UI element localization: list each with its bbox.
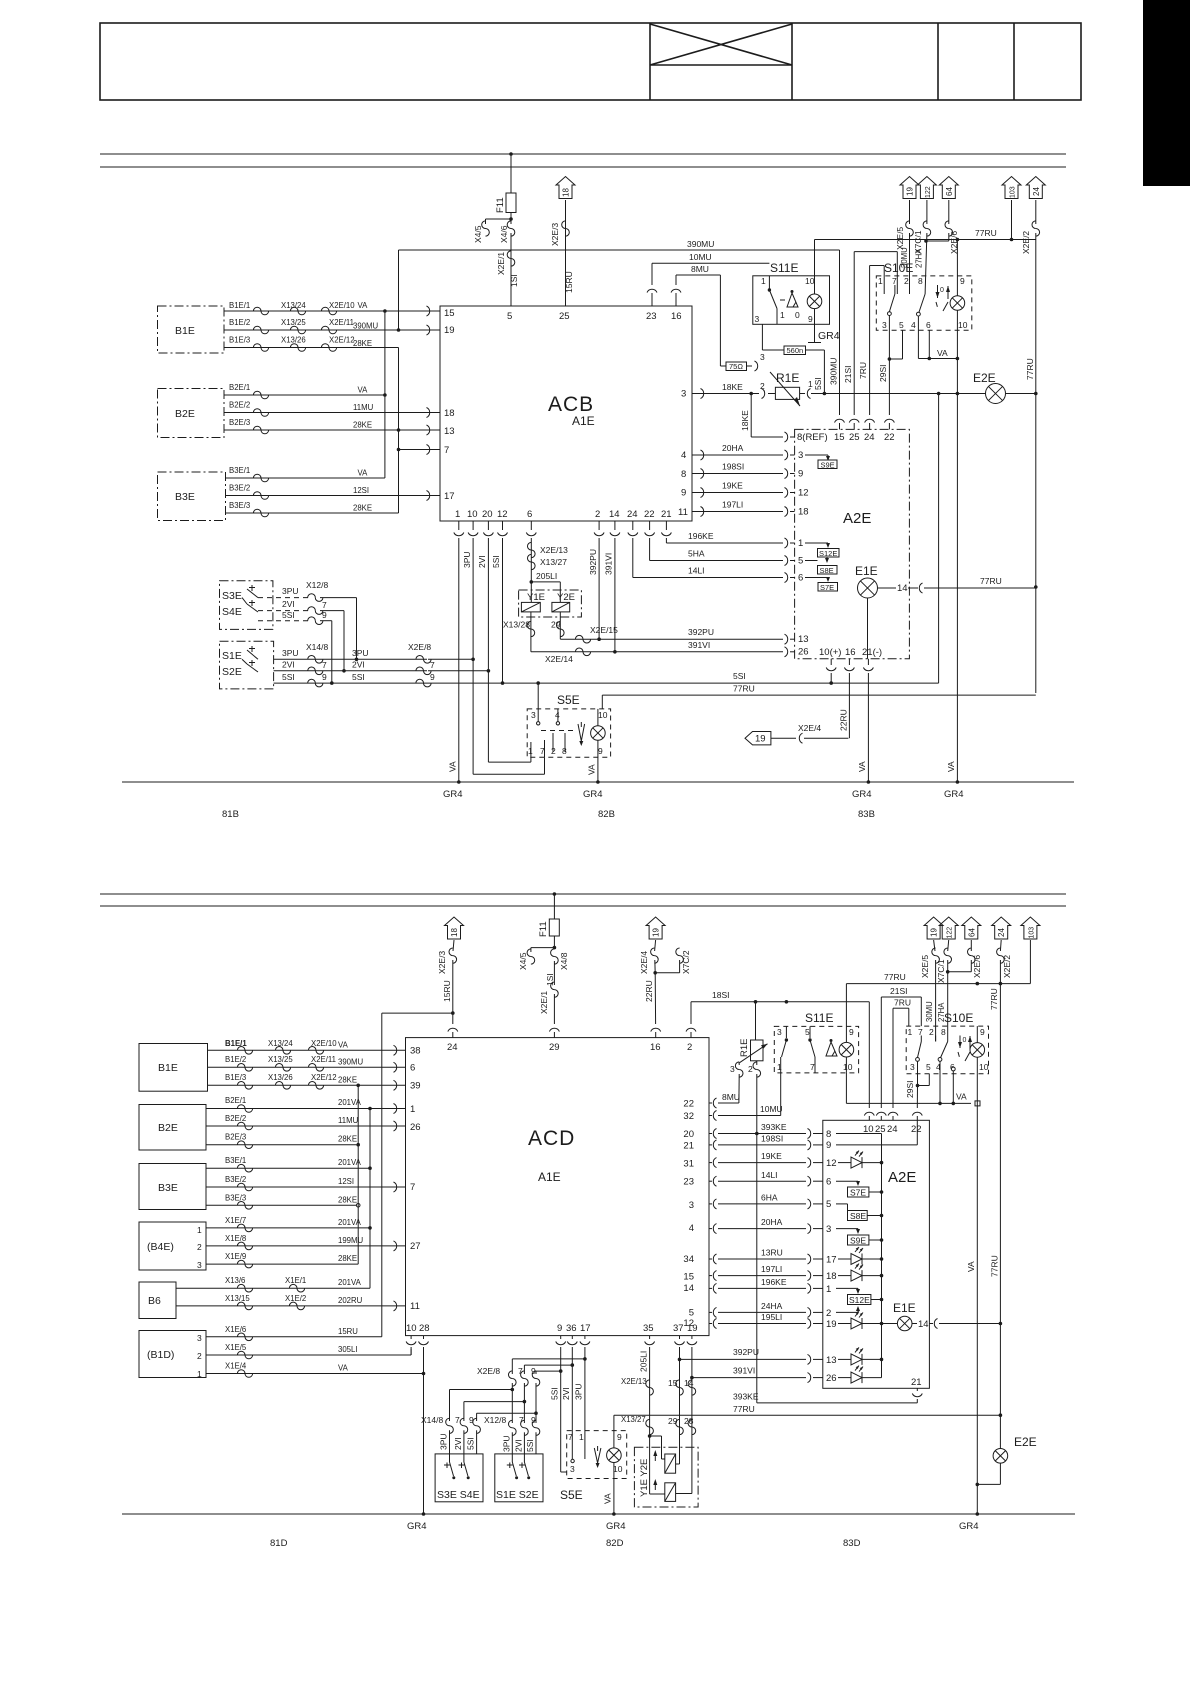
svg-text:3: 3 xyxy=(760,352,765,362)
201VA bus xyxy=(369,1109,371,1289)
svg-text:B6: B6 xyxy=(148,1295,161,1307)
svg-text:12: 12 xyxy=(798,488,809,499)
svg-text:B1E/2: B1E/2 xyxy=(229,318,250,327)
A2E pin 9 row 198SI xyxy=(692,462,803,480)
svg-text:391VI: 391VI xyxy=(688,640,710,650)
svg-text:391VI: 391VI xyxy=(604,553,614,575)
svg-text:18SI: 18SI xyxy=(712,990,730,1000)
rheostat R1E xyxy=(760,352,985,406)
svg-text:5HA: 5HA xyxy=(688,549,705,559)
svg-text:390MU: 390MU xyxy=(338,1058,364,1067)
svg-text:X2E/3: X2E/3 xyxy=(437,951,447,974)
row 393KE pin20-8 xyxy=(709,1122,882,1140)
svg-text:X14/8: X14/8 xyxy=(306,642,328,652)
svg-text:B3E/2: B3E/2 xyxy=(229,484,250,493)
svg-text:7RU: 7RU xyxy=(858,362,868,379)
wire B3E/1 VA xyxy=(226,466,385,482)
svg-text:5SI: 5SI xyxy=(550,1387,560,1400)
svg-text:19: 19 xyxy=(755,734,766,745)
sensor (B1D) xyxy=(139,1331,206,1380)
ACB pin 2 392PU drop xyxy=(588,521,604,639)
svg-text:3: 3 xyxy=(689,1200,694,1211)
svg-text:X2E/13: X2E/13 xyxy=(621,1377,647,1386)
svg-text:201VA: 201VA xyxy=(338,1278,362,1287)
svg-text:7: 7 xyxy=(518,1366,523,1376)
svg-text:9: 9 xyxy=(826,1140,831,1151)
ACB pin 1 VA drop to GR4 xyxy=(448,521,464,784)
svg-text:ACD: ACD xyxy=(528,1127,575,1150)
svg-text:9: 9 xyxy=(681,488,686,499)
svg-text:15: 15 xyxy=(683,1272,694,1283)
S11E pin9 ground GR4 xyxy=(808,324,840,342)
svg-text:B1E/3: B1E/3 xyxy=(229,336,250,345)
svg-text:32: 32 xyxy=(683,1111,694,1122)
svg-text:6HA: 6HA xyxy=(761,1193,778,1203)
ACB pin 12 5SI xyxy=(491,521,508,685)
row B1E/1 VA pin38 xyxy=(208,1039,406,1055)
svg-text:6: 6 xyxy=(410,1063,415,1074)
svg-text:11: 11 xyxy=(410,1301,420,1312)
ACB pin 20 2VI xyxy=(477,521,531,762)
S3E/S4E rows to X12/8 xyxy=(258,586,358,661)
S10E pin3 29SI drop to A2E22 xyxy=(905,1061,929,1108)
svg-text:205LI: 205LI xyxy=(639,1351,649,1372)
svg-text:9: 9 xyxy=(598,746,603,756)
svg-text:3: 3 xyxy=(882,320,887,330)
flags 103 24 xyxy=(1002,177,1021,242)
svg-text:S12E: S12E xyxy=(819,549,837,558)
S11E pin10 drop to VA row xyxy=(846,1073,980,1106)
svg-text:6: 6 xyxy=(527,509,532,520)
svg-text:28KE: 28KE xyxy=(338,1195,357,1204)
svg-text:B3E/1: B3E/1 xyxy=(229,466,250,475)
display unit A2E xyxy=(823,1120,930,1388)
svg-text:3: 3 xyxy=(531,710,536,720)
svg-text:X7C/1: X7C/1 xyxy=(936,959,946,983)
svg-text:64: 64 xyxy=(967,928,976,937)
svg-text:X2E/2: X2E/2 xyxy=(1021,231,1031,254)
svg-text:10MU: 10MU xyxy=(760,1104,783,1114)
svg-text:2VI: 2VI xyxy=(477,555,487,568)
svg-text:37: 37 xyxy=(673,1323,684,1334)
svg-text:30MU: 30MU xyxy=(925,1001,934,1022)
svg-text:S4E: S4E xyxy=(222,606,242,618)
control unit A2E xyxy=(795,429,910,658)
A2E pin 8(REF) xyxy=(751,432,827,443)
svg-text:81B: 81B xyxy=(222,809,239,820)
svg-text:7RU: 7RU xyxy=(894,998,911,1008)
svg-text:X1E/8: X1E/8 xyxy=(225,1234,246,1243)
svg-text:X4/6: X4/6 xyxy=(499,225,509,243)
svg-text:B3E: B3E xyxy=(175,491,195,503)
svg-text:9: 9 xyxy=(469,1415,474,1425)
svg-text:393KE: 393KE xyxy=(761,1122,787,1132)
sensor (B4E) xyxy=(139,1222,206,1270)
Y1E coil drop X13/28 X2E/14 391VI xyxy=(503,612,617,664)
connector X2E/1, wire 1SI to pin 5 xyxy=(496,233,519,306)
wire 10MU xyxy=(647,252,769,306)
svg-text:25: 25 xyxy=(559,311,570,322)
svg-text:B1E/1: B1E/1 xyxy=(225,1039,247,1048)
svg-text:X2E/11: X2E/11 xyxy=(329,318,354,327)
svg-text:20: 20 xyxy=(482,509,493,520)
svg-text:X1E/1: X1E/1 xyxy=(285,1276,306,1285)
switch S11E (bottom) xyxy=(774,1011,858,1073)
svg-text:197LI: 197LI xyxy=(761,1264,782,1274)
wire B3E/2 12SI xyxy=(226,484,441,501)
wire 18KE pin3 to R1E xyxy=(692,382,759,437)
svg-text:12SI: 12SI xyxy=(338,1177,354,1186)
A2E pin 12 row 19KE xyxy=(692,481,809,499)
svg-text:82B: 82B xyxy=(598,809,615,820)
svg-text:77RU: 77RU xyxy=(884,972,906,982)
sensor B2E xyxy=(158,389,225,438)
ACD pin17 3PU xyxy=(512,1336,590,1446)
svg-text:103: 103 xyxy=(1010,186,1017,198)
svg-text:S8E: S8E xyxy=(820,566,834,575)
svg-text:A1E: A1E xyxy=(538,1170,561,1184)
switch S3E S4E (bottom) xyxy=(435,1454,483,1502)
svg-text:28KE: 28KE xyxy=(338,1076,357,1085)
svg-text:VA: VA xyxy=(358,386,369,395)
svg-text:A2E: A2E xyxy=(843,510,871,527)
switch S3E S4E xyxy=(220,581,273,630)
svg-text:3PU: 3PU xyxy=(352,648,369,658)
svg-text:29: 29 xyxy=(551,620,561,630)
svg-text:X13/28: X13/28 xyxy=(503,620,530,630)
svg-text:27HA: 27HA xyxy=(937,1002,946,1022)
lamp E1E xyxy=(855,564,1036,598)
S10E wiring xyxy=(888,240,960,396)
S5E pin10 VA drop xyxy=(603,1479,616,1516)
switch unit S5E xyxy=(527,693,610,757)
svg-text:1SI: 1SI xyxy=(509,274,519,287)
svg-text:2VI: 2VI xyxy=(514,1439,524,1452)
svg-text:X7C/2: X7C/2 xyxy=(681,950,691,974)
svg-text:22: 22 xyxy=(911,1124,922,1135)
svg-text:77RU: 77RU xyxy=(989,988,999,1010)
S10E pin4/6 drops to VA row xyxy=(940,1061,955,1103)
svg-text:VA: VA xyxy=(587,764,597,775)
ACB pin 14 391VI drop xyxy=(604,521,620,652)
28KE bus xyxy=(398,348,400,514)
svg-text:10: 10 xyxy=(958,320,968,330)
svg-text:X2E/8: X2E/8 xyxy=(408,642,431,652)
svg-text:6: 6 xyxy=(798,573,803,584)
connector X2E/4, X7C/2, 22RU to pin 16 xyxy=(639,940,691,1038)
svg-text:7: 7 xyxy=(918,1027,923,1037)
svg-text:3: 3 xyxy=(755,314,760,324)
valve group Y1E Y2E xyxy=(519,590,582,617)
svg-text:14: 14 xyxy=(609,509,620,520)
svg-text:F11: F11 xyxy=(538,921,549,937)
svg-text:X2E/14: X2E/14 xyxy=(545,654,573,664)
svg-text:4: 4 xyxy=(911,320,916,330)
svg-text:26: 26 xyxy=(410,1122,421,1133)
svg-text:1: 1 xyxy=(410,1104,415,1115)
svg-text:X1E/2: X1E/2 xyxy=(285,1294,306,1303)
long VA drop to ground rail xyxy=(966,1074,1000,1516)
svg-text:X4/5: X4/5 xyxy=(473,225,483,243)
svg-text:2: 2 xyxy=(197,1242,202,1252)
svg-text:28KE: 28KE xyxy=(353,421,372,430)
ACD pin10 pin28 drops xyxy=(406,1336,416,1355)
ACD pin36 2VI xyxy=(524,1336,577,1446)
svg-text:X12/8: X12/8 xyxy=(484,1415,506,1425)
svg-text:Y1E Y2E: Y1E Y2E xyxy=(639,1459,650,1497)
svg-text:29: 29 xyxy=(549,1042,560,1053)
relay box S12E xyxy=(818,549,840,559)
svg-text:X1E/5: X1E/5 xyxy=(225,1343,247,1352)
svg-text:1: 1 xyxy=(761,276,766,286)
svg-text:22: 22 xyxy=(644,509,655,520)
ECU ACB A1E xyxy=(440,306,692,521)
svg-text:36: 36 xyxy=(566,1323,577,1334)
A2E pin 13 row 392PU xyxy=(599,627,808,645)
connector X4/5 xyxy=(518,936,556,970)
svg-text:82D: 82D xyxy=(606,1538,624,1549)
svg-text:3: 3 xyxy=(570,1464,575,1474)
svg-text:B1E/3: B1E/3 xyxy=(225,1073,246,1082)
svg-text:15: 15 xyxy=(444,308,455,319)
svg-text:8: 8 xyxy=(681,469,686,480)
svg-text:Y1E: Y1E xyxy=(527,592,545,603)
lamp E1E (bottom) xyxy=(893,1301,1002,1331)
svg-text:6: 6 xyxy=(826,1177,831,1188)
svg-text:28KE: 28KE xyxy=(338,1254,357,1263)
connector X4/8 xyxy=(551,949,569,985)
svg-text:3: 3 xyxy=(681,389,686,400)
svg-text:S11E: S11E xyxy=(805,1011,833,1025)
svg-text:3PU: 3PU xyxy=(502,1435,512,1452)
svg-text:B3E/3: B3E/3 xyxy=(225,1193,246,1202)
resistor 560n xyxy=(784,346,824,394)
svg-text:21(-): 21(-) xyxy=(862,647,882,658)
svg-text:B2E/3: B2E/3 xyxy=(225,1133,246,1142)
row B2E/2 11MU pin26 xyxy=(206,1114,406,1131)
rheostat R1E (bottom) xyxy=(718,1002,768,1403)
svg-text:X2E/1: X2E/1 xyxy=(539,991,549,1014)
row 14LI pin23-6 S7E xyxy=(709,1170,860,1188)
77RU top rail xyxy=(846,972,1030,985)
ECU ACD A1E xyxy=(406,1038,710,1336)
svg-text:199MU: 199MU xyxy=(338,1236,364,1245)
svg-text:10: 10 xyxy=(406,1323,417,1334)
svg-text:X2E/11: X2E/11 xyxy=(311,1055,336,1064)
svg-text:12SI: 12SI xyxy=(353,486,369,495)
svg-text:X2E/10: X2E/10 xyxy=(311,1039,337,1048)
row 195LI pin12-19 LED E1E xyxy=(709,1312,897,1331)
svg-text:S1E: S1E xyxy=(222,650,242,662)
svg-text:18KE: 18KE xyxy=(722,382,743,392)
switch S10E xyxy=(876,261,972,330)
svg-text:28KE: 28KE xyxy=(338,1135,357,1144)
svg-text:18KE: 18KE xyxy=(740,410,750,431)
svg-text:83B: 83B xyxy=(858,809,875,820)
svg-text:29: 29 xyxy=(668,1416,678,1426)
svg-text:S7E: S7E xyxy=(820,583,834,592)
svg-text:1: 1 xyxy=(197,1369,202,1379)
svg-text:9: 9 xyxy=(960,276,965,286)
sensor B6 xyxy=(139,1282,176,1319)
28KE bus xyxy=(357,1085,359,1264)
row X1E/4 VA xyxy=(206,1362,425,1378)
svg-text:B3E/1: B3E/1 xyxy=(225,1156,246,1165)
svg-text:5: 5 xyxy=(798,556,803,567)
svg-text:202RU: 202RU xyxy=(338,1296,363,1305)
svg-text:5SI: 5SI xyxy=(282,610,295,620)
svg-text:3: 3 xyxy=(197,1333,202,1343)
77RU row xyxy=(602,684,1036,709)
connector X4/6 xyxy=(499,213,515,244)
flag 19 xyxy=(646,917,665,939)
row 197LI pin15-18 LED xyxy=(709,1264,883,1282)
connector X14/8 xyxy=(421,1415,480,1454)
svg-text:21SI: 21SI xyxy=(890,986,908,996)
svg-text:S3E S4E: S3E S4E xyxy=(437,1489,480,1501)
svg-text:10: 10 xyxy=(467,509,478,520)
svg-text:ACB: ACB xyxy=(548,393,594,416)
svg-text:3: 3 xyxy=(798,450,803,461)
flags 24 103 xyxy=(989,917,1012,1449)
svg-text:X2E/15: X2E/15 xyxy=(590,625,618,635)
svg-text:35: 35 xyxy=(643,1323,654,1334)
svg-text:390MU: 390MU xyxy=(687,239,714,249)
svg-text:GR4: GR4 xyxy=(407,1521,427,1532)
svg-text:1: 1 xyxy=(878,276,883,286)
svg-text:31: 31 xyxy=(683,1158,694,1169)
svg-text:3: 3 xyxy=(826,1224,831,1235)
relay box S9E xyxy=(818,460,837,470)
svg-text:X13/24: X13/24 xyxy=(281,301,306,310)
svg-text:9: 9 xyxy=(557,1323,562,1334)
svg-text:77RU: 77RU xyxy=(975,228,997,238)
row X1E/5 305LI to pin10 xyxy=(206,1343,411,1359)
svg-text:21: 21 xyxy=(683,1141,694,1152)
svg-text:17: 17 xyxy=(444,491,455,502)
svg-text:75Ω: 75Ω xyxy=(729,362,743,371)
row 19KE pin31-12 LED xyxy=(709,1151,883,1169)
svg-text:10: 10 xyxy=(979,1062,989,1072)
svg-text:2: 2 xyxy=(929,1027,934,1037)
A2E pin 3 row 20HA xyxy=(692,443,830,461)
svg-text:81D: 81D xyxy=(270,1538,288,1549)
svg-text:18: 18 xyxy=(826,1271,837,1282)
svg-text:B3E: B3E xyxy=(158,1182,178,1194)
svg-text:VA: VA xyxy=(937,348,948,358)
svg-text:24: 24 xyxy=(887,1124,898,1135)
svg-text:B3E/2: B3E/2 xyxy=(225,1175,246,1184)
svg-text:5SI: 5SI xyxy=(282,672,295,682)
svg-text:E2E: E2E xyxy=(1014,1435,1037,1449)
fuse F11 feed wire xyxy=(509,152,513,193)
svg-text:17: 17 xyxy=(826,1255,837,1266)
svg-text:0: 0 xyxy=(795,310,800,320)
svg-text:7: 7 xyxy=(444,445,449,456)
svg-text:27HA: 27HA xyxy=(915,248,924,268)
svg-text:19: 19 xyxy=(930,928,939,937)
svg-text:X2E/2: X2E/2 xyxy=(1002,955,1012,978)
svg-text:GR4: GR4 xyxy=(443,789,463,800)
svg-text:S8E: S8E xyxy=(850,1211,866,1221)
svg-text:8(REF): 8(REF) xyxy=(797,432,828,443)
svg-text:X2E/1: X2E/1 xyxy=(496,252,506,275)
svg-text:X2E/8: X2E/8 xyxy=(477,1366,500,1376)
internal bus xyxy=(881,1134,883,1378)
21SI link A2E25 to S10E7 xyxy=(881,986,921,1108)
svg-text:22RU: 22RU xyxy=(644,980,654,1002)
junction 5SI on R1E output xyxy=(823,392,827,396)
connector X12/8 xyxy=(484,1415,540,1454)
svg-text:13: 13 xyxy=(798,634,809,645)
svg-text:GR4: GR4 xyxy=(583,789,603,800)
svg-text:9: 9 xyxy=(531,1415,536,1425)
svg-text:S12E: S12E xyxy=(849,1295,870,1305)
A2E pin 26 row 391VI xyxy=(615,640,809,658)
row X1E/6 15RU xyxy=(206,1013,453,1341)
sensor B1E xyxy=(158,306,225,353)
svg-text:39: 39 xyxy=(410,1081,421,1092)
svg-text:18: 18 xyxy=(444,408,455,419)
row 391VI pin26 LED xyxy=(692,1366,882,1385)
wire B2E/2 11MU xyxy=(224,401,440,418)
switch S1E S2E xyxy=(220,641,274,689)
svg-text:9: 9 xyxy=(322,610,327,620)
svg-text:B1E: B1E xyxy=(158,1062,178,1074)
svg-text:4: 4 xyxy=(689,1223,694,1234)
row B3E/1 201VA xyxy=(206,1156,372,1172)
svg-text:19KE: 19KE xyxy=(722,481,743,491)
svg-text:1: 1 xyxy=(777,1062,782,1072)
svg-text:7: 7 xyxy=(322,660,327,670)
connector X4/5 xyxy=(473,219,511,243)
S11E pin10 to 77RU rail xyxy=(814,240,816,276)
svg-text:2: 2 xyxy=(197,1351,202,1361)
svg-text:16: 16 xyxy=(671,311,682,322)
svg-text:S11E: S11E xyxy=(770,261,798,275)
svg-text:21SI: 21SI xyxy=(843,366,853,384)
svg-text:1: 1 xyxy=(798,538,803,549)
wire B1E/3 28KE xyxy=(224,336,399,352)
svg-text:GR4: GR4 xyxy=(959,1521,979,1532)
svg-text:24: 24 xyxy=(1032,187,1041,196)
svg-text:(B4E): (B4E) xyxy=(147,1241,174,1253)
svg-text:16: 16 xyxy=(845,647,856,658)
svg-text:15: 15 xyxy=(834,432,845,443)
svg-text:12: 12 xyxy=(826,1158,837,1169)
A2E pin 6 row 14LI xyxy=(633,566,830,584)
svg-text:X2E/3: X2E/3 xyxy=(550,223,560,246)
A2E pin 5 row 5HA xyxy=(650,549,818,567)
svg-text:S10E: S10E xyxy=(944,1011,973,1025)
svg-text:VA: VA xyxy=(358,469,369,478)
svg-text:5: 5 xyxy=(805,1027,810,1037)
relay S12E xyxy=(848,1295,884,1306)
svg-text:7: 7 xyxy=(430,660,435,670)
svg-text:21: 21 xyxy=(911,1377,922,1388)
svg-text:F11: F11 xyxy=(495,197,506,213)
svg-text:103: 103 xyxy=(1028,927,1035,939)
svg-text:5: 5 xyxy=(899,320,904,330)
row 20HA pin4-3 S9E xyxy=(709,1217,860,1235)
svg-text:77RU: 77RU xyxy=(733,684,755,694)
wire 8MU xyxy=(671,264,720,366)
ACD pin35 205LI chain xyxy=(621,1336,665,1494)
svg-text:19: 19 xyxy=(826,1319,837,1330)
switch S1E S2E (bottom) xyxy=(495,1454,543,1502)
A2E pin 1 row 196KE xyxy=(666,531,830,549)
svg-text:77RU: 77RU xyxy=(990,1255,1000,1277)
